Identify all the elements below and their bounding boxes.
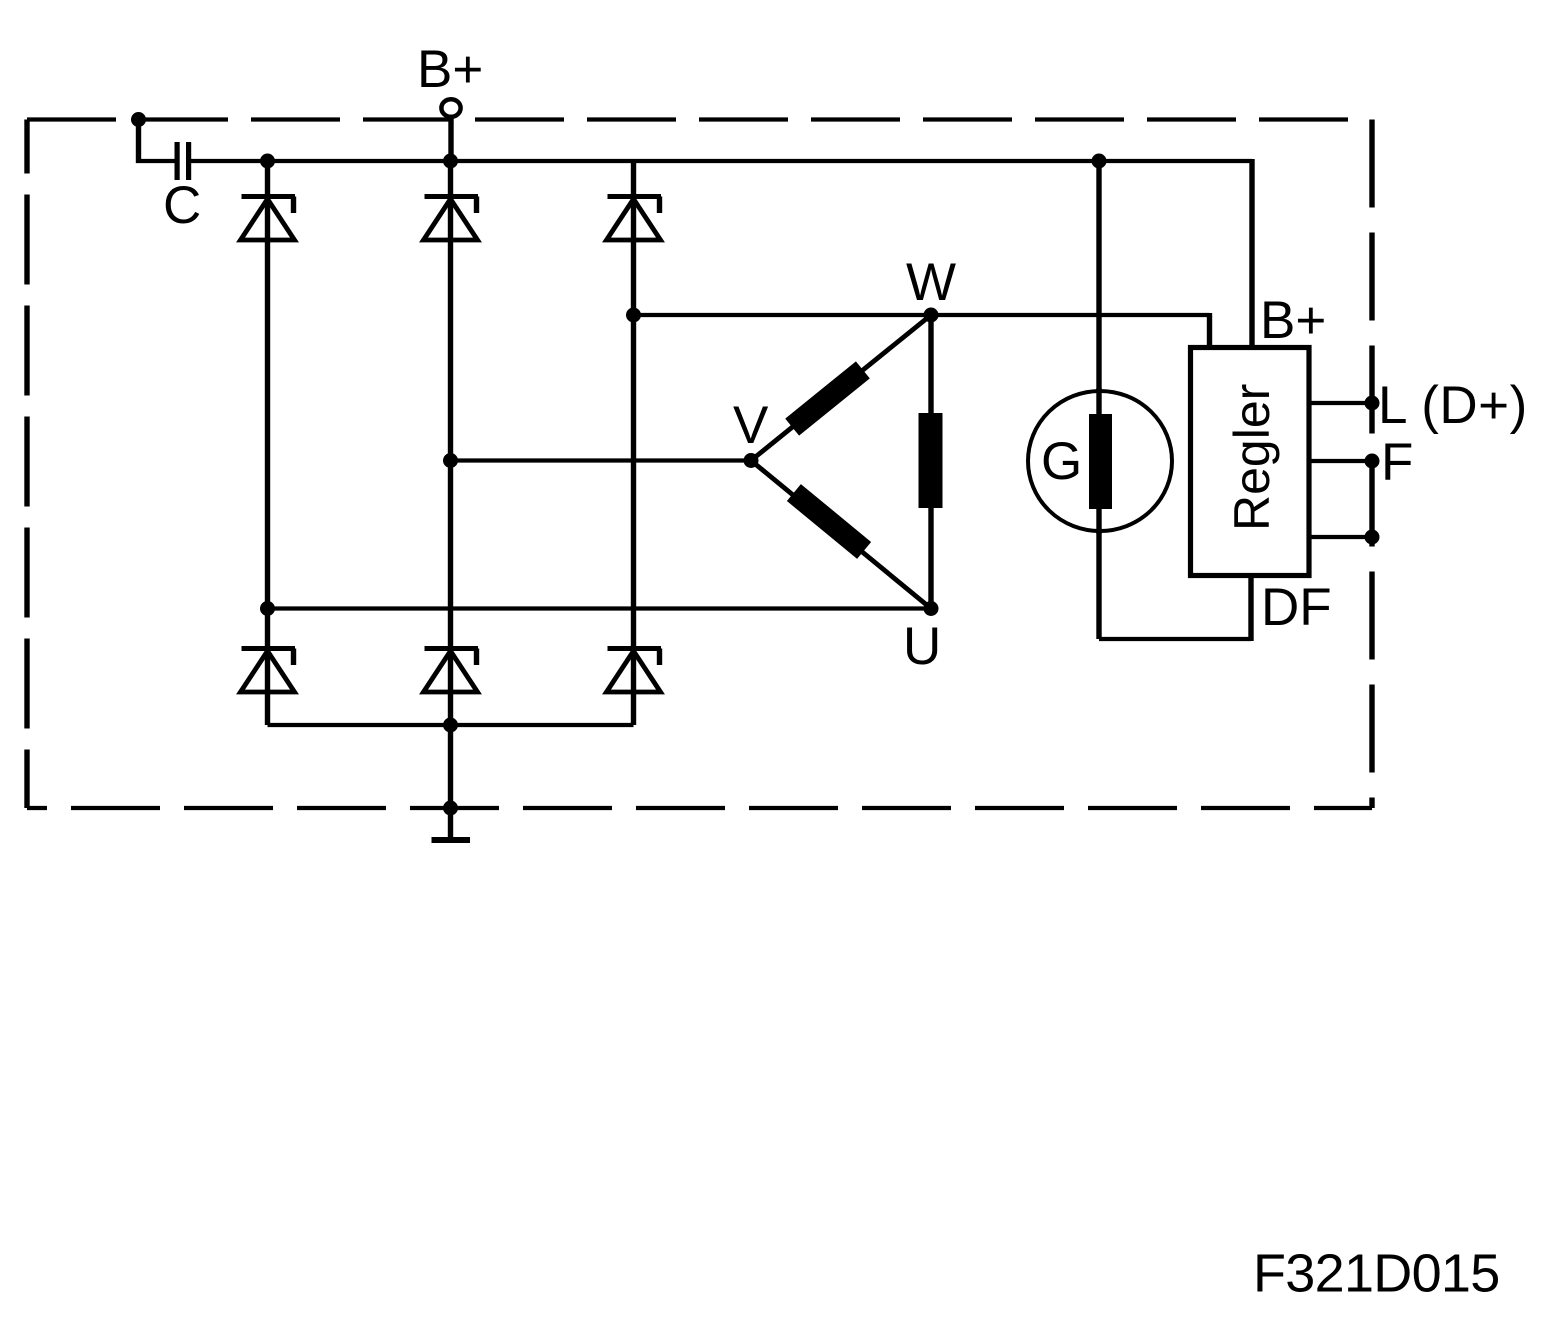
wire: phase U tap to stator node U: [268, 606, 932, 610]
alternator housing boundary (dashed box): [27, 120, 1372, 809]
wire: rectifier column 1 (phase U): [265, 161, 270, 725]
node: junction dot column3/phase W tap: [626, 308, 641, 323]
wire: bottom rectifier bus: [268, 723, 634, 727]
wire: drop from W tap into regulator top: [1207, 313, 1212, 350]
capacitor C (plates): [175, 142, 192, 180]
stator winding V-U (delta side): [751, 461, 931, 609]
diode D5 (bottom, column 2): [424, 649, 479, 693]
diode D2 (top, column 2): [424, 197, 479, 241]
ground: [432, 808, 471, 840]
node: junction dot column2/phase V tap: [443, 453, 458, 468]
wire: rectifier column 2 (phase V): [448, 161, 453, 808]
node: junction dot column1/phase U tap: [260, 601, 275, 616]
wire: regulator lower stub to housing: [1309, 535, 1372, 539]
svg-text:F: F: [1381, 433, 1413, 492]
wire: B+ feed from top bus into regulator: [1249, 159, 1254, 350]
svg-text:Regler: Regler: [1224, 384, 1280, 531]
svg-text:C: C: [163, 176, 201, 235]
node: junction dot ground branch/border: [443, 801, 458, 816]
wire: feed into capacitor left plate: [136, 159, 175, 163]
stator winding W-U (vertical delta side): [919, 315, 943, 609]
wire: rotor branch from top bus through brushes: [1096, 161, 1101, 639]
node U (stator): [924, 601, 939, 616]
svg-text:L (D+): L (D+): [1378, 376, 1528, 435]
node: junction dot at top-left border: [131, 112, 146, 127]
svg-text:F321D015: F321D015: [1253, 1244, 1500, 1304]
wire: rectifier column 3 (phase W): [631, 161, 636, 725]
wire: main top bus from capacitor to regulator B+ drop: [191, 159, 1252, 163]
svg-text:B+: B+: [417, 40, 483, 99]
svg-text:W: W: [906, 253, 956, 312]
wire: B+ terminal drop to top bus: [448, 116, 453, 161]
node V (stator): [744, 453, 759, 468]
regulator U1 (Regler): [1191, 348, 1310, 576]
diode D1 (top, column 1): [241, 197, 296, 241]
wire: regulator stub to terminal F: [1309, 459, 1372, 463]
node W (stator): [924, 308, 939, 323]
wire: DF drop from regulator bottom: [1248, 575, 1253, 641]
stator winding V-W (delta side): [751, 315, 931, 461]
wire: phase W tap to stator node W and on to regulator: [634, 313, 1210, 317]
node: junction dot bottom bus/ground branch: [443, 718, 458, 733]
wire: drop from border dot to capacitor feed: [136, 117, 141, 163]
diode D6 (bottom, column 3): [607, 649, 662, 693]
svg-text:B+: B+: [1260, 291, 1326, 350]
wire: phase V tap to stator node V: [451, 458, 752, 462]
wire: regulator stub to terminal L (D+): [1309, 401, 1372, 405]
diode D4 (bottom, column 1): [241, 649, 296, 693]
wire: DF return from regulator to rotor (horizontal run): [1099, 637, 1251, 641]
diode D3 (top, column 3): [607, 197, 662, 241]
svg-text:DF: DF: [1261, 578, 1332, 637]
node: junction dot rotor branch/top bus: [1092, 154, 1107, 169]
rotor field winding G (slip-ring circle with brush bar): [1028, 388, 1172, 534]
svg-text:U: U: [903, 617, 941, 676]
terminal L (D+) dot: [1365, 396, 1380, 411]
node: junction dot column1/top bus: [260, 154, 275, 169]
svg-text:V: V: [733, 396, 769, 455]
terminal B+ (top, open circle): [441, 99, 460, 117]
terminal dot (lower stub): [1365, 530, 1380, 545]
node: junction dot column2/top bus: [443, 154, 458, 169]
terminal F dot: [1365, 454, 1380, 469]
svg-text:G: G: [1041, 432, 1082, 491]
